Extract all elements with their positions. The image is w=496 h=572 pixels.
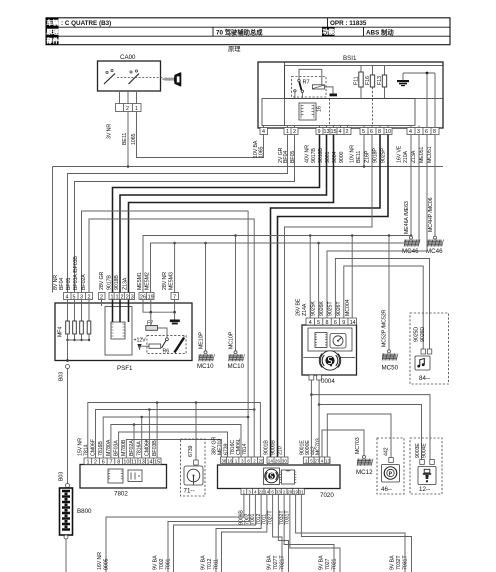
wire 9000E: 0004 to 7020 pin27 and 12 unit — [318, 380, 422, 460]
connector B03 (upper) — [59, 359, 70, 483]
svg-text:16: 16 — [228, 458, 234, 463]
svg-text:9025D: 9025D — [414, 327, 420, 342]
svg-text:8: 8 — [117, 459, 120, 465]
PSF1 transistor R6 — [163, 336, 185, 355]
ecu 7802 — [80, 465, 167, 498]
svg-text:210A: 210A — [403, 150, 409, 163]
svg-text:MC703: MC703 — [316, 438, 322, 455]
ignition switch CA00 — [98, 54, 164, 91]
PSF1 pins 26,19 — [137, 272, 154, 300]
BSI1 pin 4 (10V BA) — [253, 128, 268, 159]
wire BE11 bus — [53, 135, 444, 293]
fuse F16 — [365, 66, 375, 87]
wire BSI1 internal to pins 6,8 — [403, 72, 435, 128]
svg-text:11: 11 — [131, 459, 137, 465]
ground MC10 (right) — [228, 331, 245, 370]
wire ME5M2 bus: PSF1 pin19 / pin7 / MC10 / 0004 / BSI1 — [151, 135, 420, 293]
svg-text:4: 4 — [309, 320, 312, 326]
svg-text:BE11: BE11 — [356, 151, 362, 163]
7020 bottom wire labels — [239, 510, 291, 525]
svg-text:BE11: BE11 — [122, 133, 128, 145]
svg-text:ME5M1: ME5M1 — [137, 272, 143, 290]
svg-text:: C QUATRE (B3): : C QUATRE (B3) — [61, 20, 111, 27]
7020 bottom pins — [241, 489, 304, 495]
svg-text:2: 2 — [346, 129, 349, 135]
svg-text:9001B: 9001B — [264, 440, 270, 455]
0004 chip icon — [315, 333, 327, 348]
abs ecu 7020 — [218, 465, 341, 499]
svg-text:7802: 7802 — [114, 491, 128, 498]
svg-text:1: 1 — [116, 294, 119, 300]
svg-text:19: 19 — [293, 490, 298, 495]
7020 ABS icon — [264, 468, 280, 485]
svg-text:Z14A: Z14A — [302, 303, 308, 316]
svg-text:10V NR: 10V NR — [350, 145, 356, 163]
wire BF05: BSI1 pin2 to PSF1 pin5 — [75, 135, 295, 293]
svg-text:9025K: 9025K — [311, 301, 317, 316]
svg-text:6739: 6739 — [224, 443, 230, 455]
svg-text:6: 6 — [425, 129, 428, 135]
wire link h3 — [103, 416, 249, 458]
0004 pins 4,5,8,6,9,14 — [296, 298, 357, 326]
PSF1 internal bus to B03 — [68, 340, 90, 361]
svg-text:ME46A /ME63: ME46A /ME63 — [404, 201, 410, 234]
svg-text:ABS 制动: ABS 制动 — [366, 27, 394, 36]
svg-text:MC703: MC703 — [355, 437, 361, 454]
0004 ABS warning lamp icon — [303, 351, 355, 370]
svg-text:7031T: 7031T — [403, 555, 409, 570]
gauge unit 71 (dashed) — [181, 403, 206, 497]
svg-text:7001: 7001 — [166, 558, 172, 570]
svg-text:9017B: 9017B — [311, 148, 317, 163]
ignition key icon — [162, 72, 182, 86]
wire 7021T exit — [267, 495, 289, 572]
BSI1 pin stubs — [264, 126, 436, 128]
wire Z13A: BSI1 pin15 to PSF1 — [129, 135, 334, 293]
svg-text:MC10P: MC10P — [229, 331, 235, 349]
svg-text:2: 2 — [126, 106, 129, 112]
wire 442: 7020 pin13 to 46 unit — [327, 414, 391, 458]
svg-text:BF04: BF04 — [283, 151, 289, 163]
svg-text:9V BA: 9V BA — [153, 555, 159, 570]
svg-text:ME10P: ME10P — [199, 332, 205, 349]
svg-text:9000: 9000 — [339, 151, 345, 163]
wire 7011 exit — [201, 495, 267, 572]
svg-text:5: 5 — [73, 294, 76, 300]
parking brake switch 46 (dashed) — [377, 438, 404, 494]
svg-text:Z13A: Z13A — [123, 277, 129, 290]
battery junction B800 — [60, 488, 93, 572]
svg-text:3: 3 — [131, 294, 134, 300]
svg-text:9: 9 — [342, 320, 345, 326]
svg-text:25: 25 — [259, 458, 265, 463]
svg-text:13: 13 — [139, 459, 145, 465]
svg-text:71--: 71-- — [184, 488, 195, 495]
wire 7021 exit — [290, 495, 340, 572]
svg-text:8: 8 — [326, 320, 329, 326]
svg-text:MC004: MC004 — [345, 299, 351, 316]
svg-text:OPR : 11835: OPR : 11835 — [330, 20, 367, 27]
wire link h6 — [126, 440, 221, 459]
wire BF04: BSI1 pin1 to PSF1 pin4 — [68, 135, 288, 293]
svg-text:8: 8 — [433, 129, 436, 135]
svg-text:ME5M3: ME5M3 — [169, 272, 175, 290]
7802 pins 1,2,6,7,8,10,11,13,14,15 — [78, 438, 162, 466]
connector icon (BSI1 lower box) — [299, 103, 323, 120]
PSF1 relay (internal) — [134, 336, 187, 354]
ground symbol (BSI1 internal, right of relay coil) — [324, 87, 337, 96]
svg-text:12--: 12-- — [419, 486, 430, 493]
wire 7802/7020 link h1 — [88, 401, 261, 458]
svg-text:7816C: 7816C — [230, 440, 236, 455]
wire 7027 exit — [284, 495, 334, 572]
svg-text:7814: 7814 — [84, 444, 90, 456]
BSI1 pins 1,2 (2V GR) — [278, 128, 298, 164]
svg-text:2: 2 — [94, 459, 97, 465]
svg-text:5: 5 — [310, 458, 313, 463]
svg-text:9004E: 9004E — [422, 443, 428, 458]
svg-text:14: 14 — [264, 490, 269, 495]
svg-text:7021T: 7021T — [280, 555, 286, 570]
svg-text:2: 2 — [293, 129, 296, 135]
wire 9001B (dark): BSI1 to 7020 pin14 — [271, 135, 381, 458]
wire 9001E: 0004 to 7020 pin5 and 12 unit — [310, 380, 430, 460]
svg-text:8: 8 — [247, 458, 250, 463]
wire 7027T exit — [273, 495, 282, 572]
svg-text:10: 10 — [123, 459, 129, 465]
wire link h5 — [119, 432, 228, 458]
svg-text:BF05: BF05 — [290, 151, 296, 163]
svg-text:PSF1: PSF1 — [117, 365, 133, 372]
svg-text:442: 442 — [384, 447, 390, 456]
PSF1 internal ground block — [170, 312, 180, 324]
svg-text:9V BA: 9V BA — [267, 555, 273, 570]
svg-text:F16: F16 — [365, 76, 371, 85]
svg-text:30: 30 — [282, 458, 288, 463]
svg-text:26: 26 — [275, 458, 281, 463]
svg-text:9025P: 9025P — [381, 148, 387, 163]
svg-text:31: 31 — [299, 490, 304, 495]
svg-text:38: 38 — [221, 458, 227, 463]
wire 7002 exit — [168, 495, 250, 572]
svg-text:1065: 1065 — [259, 146, 265, 158]
svg-text:ME5M2: ME5M2 — [145, 272, 151, 290]
PSF1 fuse F7 — [146, 312, 167, 338]
svg-text:MC10: MC10 — [197, 363, 214, 370]
ground MC12 — [356, 455, 373, 476]
wire BF02: PSF1 pin2 to 7020 — [89, 219, 254, 410]
svg-text:2: 2 — [253, 458, 256, 463]
svg-text:F13: F13 — [377, 76, 383, 85]
svg-text:14: 14 — [350, 320, 356, 326]
svg-text:14: 14 — [147, 459, 153, 465]
svg-text:5: 5 — [317, 320, 320, 326]
fuse F13 — [377, 66, 387, 99]
svg-text:84--: 84-- — [419, 375, 430, 382]
fuse box PSF1 — [55, 303, 192, 372]
svg-text:40V NR: 40V NR — [305, 145, 311, 163]
svg-text:7011: 7011 — [214, 559, 220, 570]
wire to MC46 ground 1 — [404, 135, 413, 240]
svg-text:MC50: MC50 — [382, 365, 399, 372]
svg-text:6: 6 — [370, 129, 373, 135]
PSF1 fuse MF5 — [73, 300, 77, 342]
svg-text:CM06L: CM06L — [236, 438, 242, 455]
svg-text:6: 6 — [334, 320, 337, 326]
ground MC50 — [382, 353, 399, 371]
svg-text:13: 13 — [324, 129, 330, 135]
wire 9005 exit — [97, 495, 244, 572]
svg-text:R7: R7 — [303, 80, 310, 86]
wire 9026K: 0004 pin4 branch — [309, 236, 311, 319]
svg-text:7021: 7021 — [332, 558, 338, 570]
PSF1 fuse MF6 — [80, 300, 84, 342]
svg-text:7027: 7027 — [325, 558, 331, 570]
svg-text:20: 20 — [287, 490, 292, 495]
svg-text:4: 4 — [262, 129, 265, 135]
7802 chip icon — [108, 469, 123, 483]
svg-text:33: 33 — [276, 490, 281, 495]
wire ME5M1 bus: PSF1 pin26 / MC10 / 0004 / MC46 — [143, 234, 412, 292]
svg-text:9026D: 9026D — [420, 327, 426, 342]
svg-text:6: 6 — [102, 459, 105, 465]
instrument cluster 0004 — [302, 325, 357, 385]
svg-text:9V BA: 9V BA — [201, 555, 207, 570]
svg-text:3: 3 — [241, 458, 244, 463]
svg-text:MC52P /MC52R: MC52P /MC52R — [382, 309, 388, 347]
svg-text:原理: 原理 — [47, 28, 59, 36]
svg-text:9V BA: 9V BA — [390, 555, 396, 570]
svg-text:1: 1 — [87, 459, 90, 465]
svg-text:+12V: +12V — [134, 338, 147, 344]
svg-text:Z13A: Z13A — [411, 150, 417, 163]
svg-text:R6: R6 — [163, 349, 170, 355]
svg-text:28V NR: 28V NR — [162, 272, 168, 290]
svg-text:ME702: ME702 — [218, 439, 224, 455]
svg-text:9026T: 9026T — [336, 301, 342, 316]
svg-text:BF02A: BF02A — [81, 274, 87, 290]
fuse F11 — [354, 66, 364, 99]
svg-text:1: 1 — [286, 129, 289, 135]
wire to 0004 pin14 — [351, 234, 354, 318]
wire MC703 to MC12 ground — [322, 430, 364, 457]
wire 9018B (CAN L): BSI1 pin13 to PSF1 — [120, 135, 327, 293]
svg-text:15: 15 — [154, 459, 160, 465]
svg-text:7020: 7020 — [320, 492, 334, 499]
svg-text:46--: 46-- — [381, 486, 392, 493]
svg-text:1: 1 — [305, 458, 308, 463]
svg-text:3: 3 — [417, 129, 420, 135]
svg-text:5: 5 — [362, 129, 365, 135]
wire to MC10 ground 2 — [235, 236, 237, 351]
BSI1 pins 9,13,15,4,2 (40V NR) — [305, 128, 352, 164]
svg-text:9V BA: 9V BA — [319, 555, 325, 570]
svg-text:MC10: MC10 — [228, 363, 245, 370]
relay R7 (inside BSI1) — [292, 69, 327, 98]
wire 7001 exit — [153, 495, 256, 572]
svg-text:6739: 6739 — [188, 445, 194, 457]
svg-text:MC46: MC46 — [426, 248, 443, 255]
svg-text:70 驾驶辅助总成: 70 驾驶辅助总成 — [216, 27, 263, 36]
svg-text:0004: 0004 — [321, 378, 335, 385]
7802 component box — [128, 470, 142, 482]
connector B03 (lower) — [59, 472, 70, 488]
7020 top pins 38,16,1,3,8,2,25 — [212, 436, 265, 463]
svg-text:7814: 7814 — [242, 443, 248, 455]
svg-text:7012: 7012 — [207, 558, 213, 570]
wire 7032T exit — [296, 495, 405, 572]
0004 gauge icon — [330, 334, 346, 349]
svg-text:28V GR: 28V GR — [99, 271, 105, 290]
svg-text:4: 4 — [321, 458, 324, 463]
7020 chip icon — [280, 470, 297, 484]
svg-text:4: 4 — [339, 129, 342, 135]
ground MC46 (right) — [426, 240, 444, 256]
svg-text:13: 13 — [325, 458, 331, 463]
svg-text:1: 1 — [235, 458, 238, 463]
svg-text:9018P: 9018P — [373, 148, 379, 163]
wire 9000B (dark): BSI1 to 7020 pin26 — [278, 135, 389, 458]
wire link h4 — [111, 423, 241, 458]
svg-text:MC051: MC051 — [427, 146, 433, 163]
7020 top pins 14,26,30 — [264, 440, 289, 464]
svg-text:210: 210 — [278, 446, 284, 455]
PSF1 internal bus from pins 26,19,7 — [143, 300, 176, 314]
7020 top pins 1,5,27,4,13 — [300, 438, 331, 463]
wire link h2 — [96, 408, 255, 458]
0004 bottom pins — [309, 375, 322, 380]
svg-text:BF03A /BF03B: BF03A /BF03B — [73, 256, 79, 290]
svg-text:9000B: 9000B — [271, 440, 277, 455]
svg-text:9025T: 9025T — [327, 301, 333, 316]
wire 1065 CA00 to BSI1 pin4 — [137, 112, 264, 158]
wire 9017B (CAN H): BSI1 pin9 to PSF1 — [113, 135, 320, 293]
svg-text:7032T: 7032T — [396, 555, 402, 570]
svg-text:MC4HP /MC06: MC4HP /MC06 — [428, 197, 434, 232]
svg-text:MF4: MF4 — [58, 327, 64, 337]
svg-text:F11: F11 — [354, 76, 360, 85]
wire 9026T: 0004 pin9 to buzzer 84 — [344, 266, 423, 349]
wire 210: BSI1 to 7020 pin30 — [285, 135, 373, 458]
wire 7031T exit — [301, 495, 411, 572]
svg-text:8: 8 — [378, 129, 381, 135]
wire to MC10 ground 1 — [205, 243, 207, 351]
svg-text:4: 4 — [66, 294, 69, 300]
svg-text:4: 4 — [409, 129, 412, 135]
PSF1 pins 4,5,3,2 — [53, 256, 93, 301]
wire 9025T: 0004 pin6 to buzzer 84 — [335, 259, 429, 350]
svg-text:2: 2 — [121, 294, 124, 300]
wire BE11 CA00 to bus — [127, 112, 129, 167]
svg-text:MC46: MC46 — [402, 248, 419, 255]
CA00 connector pins (blank,2,1) — [107, 91, 142, 145]
svg-text:9018B: 9018B — [114, 275, 120, 290]
ground symbol (BSI1 internal right) — [397, 73, 409, 86]
wire 9025K: BSI1 pin6 to 0004 pin8 — [327, 135, 427, 319]
svg-text:BF05: BF05 — [66, 278, 72, 290]
svg-text:16V VE: 16V VE — [397, 145, 403, 163]
PSF1 pin 2 (single) — [99, 293, 106, 307]
svg-text:MC12: MC12 — [356, 469, 373, 476]
svg-text:B800: B800 — [77, 508, 92, 515]
svg-text:9: 9 — [318, 129, 321, 135]
PSF1 pins 1,1,2,2,3 — [99, 271, 135, 300]
PSF1 fuse MF4 — [58, 300, 70, 342]
svg-text:车辆: 车辆 — [47, 19, 59, 27]
svg-text:16: 16 — [317, 106, 323, 112]
svg-text:9003E: 9003E — [415, 443, 421, 458]
BSI1 pins 5,6,8,10 (10V NR) — [350, 128, 393, 164]
svg-text:7: 7 — [110, 459, 113, 465]
svg-text:BF04: BF04 — [59, 278, 65, 290]
PSF1 electronic module box — [105, 300, 132, 356]
brake fluid sensor 12 (dashed) — [410, 438, 442, 494]
ground MC46 (left) — [402, 240, 420, 256]
svg-text:9026K: 9026K — [319, 301, 325, 316]
svg-text:7002: 7002 — [159, 558, 165, 570]
svg-text:15: 15 — [331, 129, 337, 135]
svg-text:27: 27 — [314, 458, 320, 463]
svg-text:26V BE: 26V BE — [296, 298, 302, 316]
svg-text:22: 22 — [259, 490, 264, 495]
svg-text:3V NR: 3V NR — [107, 124, 113, 139]
svg-text:10: 10 — [385, 129, 391, 135]
PSF1 pin 7 — [162, 272, 179, 301]
wire 7012 exit — [216, 495, 261, 572]
svg-text:Z16P: Z16P — [365, 150, 371, 163]
svg-text:9017B: 9017B — [107, 275, 113, 290]
PSF1 fuse MF7 — [87, 300, 91, 342]
svg-text:1: 1 — [135, 106, 138, 112]
svg-text:9005: 9005 — [104, 558, 110, 570]
svg-text:部件: 部件 — [47, 37, 59, 45]
title block — [46, 18, 450, 45]
svg-text:功能: 功能 — [323, 28, 335, 36]
ground MC10 (left) — [197, 332, 214, 370]
BSI1 body controller — [258, 55, 443, 128]
buzzer unit 84 (dashed) — [410, 313, 449, 384]
wire Z14A: 0004 pin5 branch — [318, 243, 320, 318]
wire to MC46 ground 2 — [428, 135, 437, 240]
wire to MC50 ground — [382, 236, 391, 353]
wire BF03: PSF1 pin3 to 7020 — [82, 211, 249, 417]
svg-text:14: 14 — [268, 458, 274, 463]
svg-text:B03: B03 — [59, 372, 65, 381]
svg-text:16V NR: 16V NR — [97, 552, 103, 570]
svg-text:BSI1: BSI1 — [343, 55, 357, 62]
svg-text:原理: 原理 — [228, 45, 241, 53]
svg-text:CA00: CA00 — [120, 54, 136, 61]
BSI1 pins 4,3,6,8 (16V VE) — [397, 128, 440, 164]
svg-text:B03: B03 — [59, 472, 65, 481]
svg-text:ME051: ME051 — [419, 147, 425, 163]
svg-text:7027T: 7027T — [273, 555, 279, 570]
